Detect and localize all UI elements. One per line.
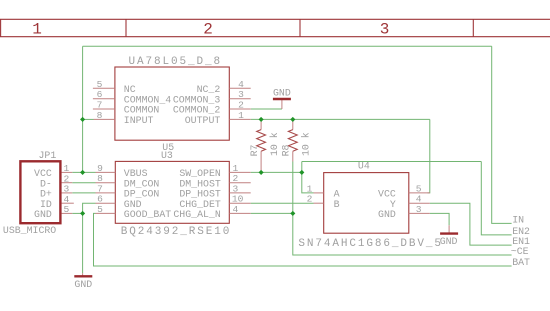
IC U5 body bbox=[115, 67, 229, 140]
svg-text:CHG_AL_N: CHG_AL_N bbox=[173, 209, 220, 220]
gnd symbol U4 bar bbox=[440, 232, 458, 234]
svg-text:3: 3 bbox=[416, 204, 422, 215]
svg-text:COMMON: COMMON bbox=[124, 105, 160, 116]
JP1 pin 3 stub bbox=[62, 192, 73, 194]
JP1 pin 2 stub bbox=[62, 182, 73, 184]
wire U5 COMMON_2 to GND bbox=[251, 108, 282, 110]
junction at JP1 VCC bbox=[80, 170, 85, 175]
U5 pin 1 stub bbox=[229, 118, 250, 120]
wire EN2 right vertical bbox=[481, 162, 511, 235]
svg-text:GND: GND bbox=[440, 236, 458, 247]
U5 pin 2 stub bbox=[229, 108, 250, 110]
wire +5V OUTPUT horizontal bbox=[251, 118, 430, 120]
connector JP1 body bbox=[20, 161, 60, 223]
svg-text:INPUT: INPUT bbox=[124, 115, 154, 126]
wire JP1 D+ to U3 DP_CON row3 bbox=[72, 192, 95, 194]
U4 pin 2 stub bbox=[314, 202, 324, 204]
frame band top line bbox=[0, 18, 550, 20]
gnd symbol U4 stub bbox=[448, 225, 450, 233]
svg-text:5: 5 bbox=[97, 79, 103, 90]
U4 pin 3 stub bbox=[409, 212, 430, 214]
wire CHG_AL_N to R8 column bbox=[251, 212, 293, 214]
svg-text:SN74AHC1G86_DBV_5: SN74AHC1G86_DBV_5 bbox=[298, 238, 443, 250]
U3 pin 4 stub bbox=[229, 212, 250, 214]
wire net IN right vertical bbox=[492, 46, 512, 223]
junction at CHG_AL_N tee bbox=[290, 211, 295, 216]
resistor R7 zigzag bbox=[257, 130, 266, 152]
JP1 pin 4 stub bbox=[62, 202, 74, 204]
svg-text:COMMON_2: COMMON_2 bbox=[173, 105, 220, 116]
gnd symbol bottom-left bar bbox=[74, 275, 92, 277]
U4 pin 4 stub bbox=[409, 202, 430, 204]
svg-text:IN: IN bbox=[512, 214, 524, 225]
gnd symbol bottom-left stub bbox=[82, 273, 84, 276]
svg-text:4: 4 bbox=[233, 204, 239, 215]
junction at U5 INPUT bbox=[80, 117, 85, 122]
U3 pin 7 stub bbox=[96, 192, 116, 194]
svg-text:2: 2 bbox=[307, 194, 313, 205]
svg-text:GND: GND bbox=[74, 279, 92, 290]
wire net IN top horizontal bbox=[83, 45, 492, 47]
junction at JP1 GND bbox=[80, 211, 85, 216]
wire U5 INPUT to VCC column bbox=[83, 118, 94, 120]
resistor R8 zigzag bbox=[288, 130, 297, 152]
wire VCC column left vertical bbox=[82, 46, 84, 172]
svg-text:2: 2 bbox=[203, 21, 213, 39]
wire +5V down to U4 VCC bbox=[428, 119, 430, 192]
svg-text:BAT: BAT bbox=[512, 257, 530, 268]
IC U3 body bbox=[115, 161, 229, 223]
wire SW_OPEN column to EN2 and U4 A bbox=[302, 162, 314, 193]
wire CHG_DET to U4 B bbox=[251, 202, 314, 204]
svg-text:10 k: 10 k bbox=[269, 132, 280, 156]
wire U4 Y to EN1 bbox=[430, 203, 512, 245]
svg-text:7: 7 bbox=[97, 100, 103, 111]
svg-text:GND: GND bbox=[34, 209, 52, 220]
svg-text:U4: U4 bbox=[358, 161, 370, 172]
U4 pin 1 stub bbox=[314, 192, 324, 194]
U5 pin 8 stub bbox=[94, 118, 115, 120]
resistor R7 top lead bbox=[260, 119, 262, 129]
svg-text:BQ24392_RSE10: BQ24392_RSE10 bbox=[121, 226, 232, 238]
wire EN2 upper horizontal bbox=[302, 161, 482, 163]
svg-text:UA78L05_D_8: UA78L05_D_8 bbox=[129, 56, 223, 68]
svg-text:2: 2 bbox=[238, 100, 244, 111]
U5 pin 4 stub bbox=[229, 87, 250, 89]
svg-text:GND: GND bbox=[378, 209, 396, 220]
svg-text:5: 5 bbox=[97, 204, 103, 215]
U5 pin 7 stub bbox=[93, 108, 115, 110]
resistor R7 bottom lead bbox=[260, 151, 262, 172]
U5 pin 3 stub bbox=[229, 98, 250, 100]
U3 pin 1 stub bbox=[229, 171, 250, 173]
svg-text:1: 1 bbox=[238, 110, 244, 121]
wire U4 GND to gnd symbol bbox=[430, 213, 449, 225]
junction at R7 top bbox=[259, 117, 264, 122]
svg-text:R8: R8 bbox=[281, 144, 292, 156]
frame band bottom line bbox=[0, 36, 550, 38]
U3 pin 8 stub bbox=[96, 182, 116, 184]
wire GOOD_BAT down and right to BAT bbox=[94, 213, 512, 266]
wire GND column down bbox=[82, 213, 84, 273]
wire JP1 GND stub to junction bbox=[72, 212, 82, 214]
resistor R8 top lead bbox=[292, 119, 294, 129]
U5 pin 6 stub bbox=[93, 98, 115, 100]
JP1 pin 1 stub bbox=[62, 171, 73, 173]
U3 pin 5 stub bbox=[96, 212, 116, 214]
svg-text:10 k: 10 k bbox=[301, 132, 312, 156]
junction at R8 top bbox=[290, 117, 295, 122]
JP1 pin 5 stub bbox=[62, 212, 73, 214]
IC U4 body bbox=[324, 173, 409, 234]
svg-text:NC: NC bbox=[124, 84, 136, 95]
svg-text:U3: U3 bbox=[161, 150, 173, 161]
svg-text:B: B bbox=[334, 199, 340, 210]
wire U3 GND jog bbox=[83, 203, 96, 213]
junction at R7 bottom bbox=[259, 170, 264, 175]
U5 pin 5 stub bbox=[93, 87, 115, 89]
svg-text:USB_MICRO: USB_MICRO bbox=[3, 225, 56, 236]
svg-text:~CE: ~CE bbox=[511, 246, 529, 257]
frame divider 2 bbox=[299, 19, 301, 36]
svg-text:NC_2: NC_2 bbox=[197, 84, 221, 95]
U3 pin 9 stub bbox=[96, 171, 116, 173]
frame band left edge bbox=[0, 19, 2, 36]
svg-text:5: 5 bbox=[64, 204, 70, 215]
wire JP1 D- to U3 DM_CON row2 bbox=[72, 182, 95, 184]
U3 pin 2 stub bbox=[229, 182, 250, 184]
gnd symbol top (U5 common) stub bbox=[281, 100, 283, 109]
wire R8 column down to CE bbox=[293, 162, 512, 256]
svg-text:GND: GND bbox=[273, 88, 291, 99]
U4 pin 5 stub bbox=[409, 192, 430, 194]
svg-text:3: 3 bbox=[380, 21, 390, 39]
frame divider 1 bbox=[125, 19, 127, 36]
U3 pin 3 stub bbox=[229, 192, 250, 194]
wire JP1 VCC to U3 VBUS row1 bbox=[72, 171, 95, 173]
junction at SW_OPEN tee bbox=[299, 170, 304, 175]
gnd symbol top bar bbox=[273, 98, 291, 100]
svg-text:1: 1 bbox=[32, 21, 42, 39]
svg-text:OUTPUT: OUTPUT bbox=[185, 115, 221, 126]
wire SW_OPEN row to junction column bbox=[251, 171, 302, 173]
U3 pin 10 stub bbox=[229, 202, 250, 204]
U3 pin 6 stub bbox=[96, 202, 116, 204]
resistor R8 bottom lead bbox=[292, 151, 294, 161]
svg-text:GOOD_BAT: GOOD_BAT bbox=[124, 209, 171, 220]
svg-text:8: 8 bbox=[97, 110, 103, 121]
svg-text:4: 4 bbox=[238, 79, 244, 90]
svg-text:JP1: JP1 bbox=[39, 150, 57, 161]
frame divider 3 bbox=[472, 19, 474, 36]
svg-text:R7: R7 bbox=[249, 144, 260, 156]
